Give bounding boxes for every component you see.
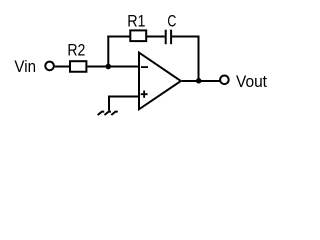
wire R1 to capacitor C: [146, 36, 165, 38]
op-amp non-inverting input plus sign: [141, 91, 148, 98]
wire input terminal to R2: [55, 66, 70, 68]
wire op-amp output to terminal: [182, 80, 220, 82]
svg-text:Vin: Vin: [14, 58, 36, 76]
wire capacitor to feedback right corner: [172, 36, 197, 38]
capacitor C left plate: [165, 30, 167, 45]
svg-text:C: C: [167, 12, 176, 30]
wire feedback top horizontal to R1: [107, 36, 130, 38]
node junction dot (inverting input): [106, 64, 112, 70]
ground: [98, 112, 118, 115]
svg-text:R1: R1: [127, 12, 145, 30]
wire R2 to op-amp inverting input: [87, 66, 139, 68]
op-amp U1 triangle: [139, 53, 181, 110]
wire feedback right vertical down to output: [198, 36, 200, 82]
capacitor C right plate: [170, 30, 172, 45]
svg-text:R2: R2: [67, 41, 85, 59]
output terminal circle: [220, 76, 229, 85]
resistor R1: [130, 30, 146, 41]
wire op-amp non-inverting input to ground: [109, 97, 139, 111]
input terminal circle: [45, 62, 54, 71]
svg-text:Vout: Vout: [236, 73, 267, 91]
wire feedback left vertical: [107, 36, 109, 67]
op-amp inverting input minus sign: [141, 66, 148, 68]
node junction dot (output): [196, 78, 202, 84]
resistor R2: [70, 61, 86, 72]
